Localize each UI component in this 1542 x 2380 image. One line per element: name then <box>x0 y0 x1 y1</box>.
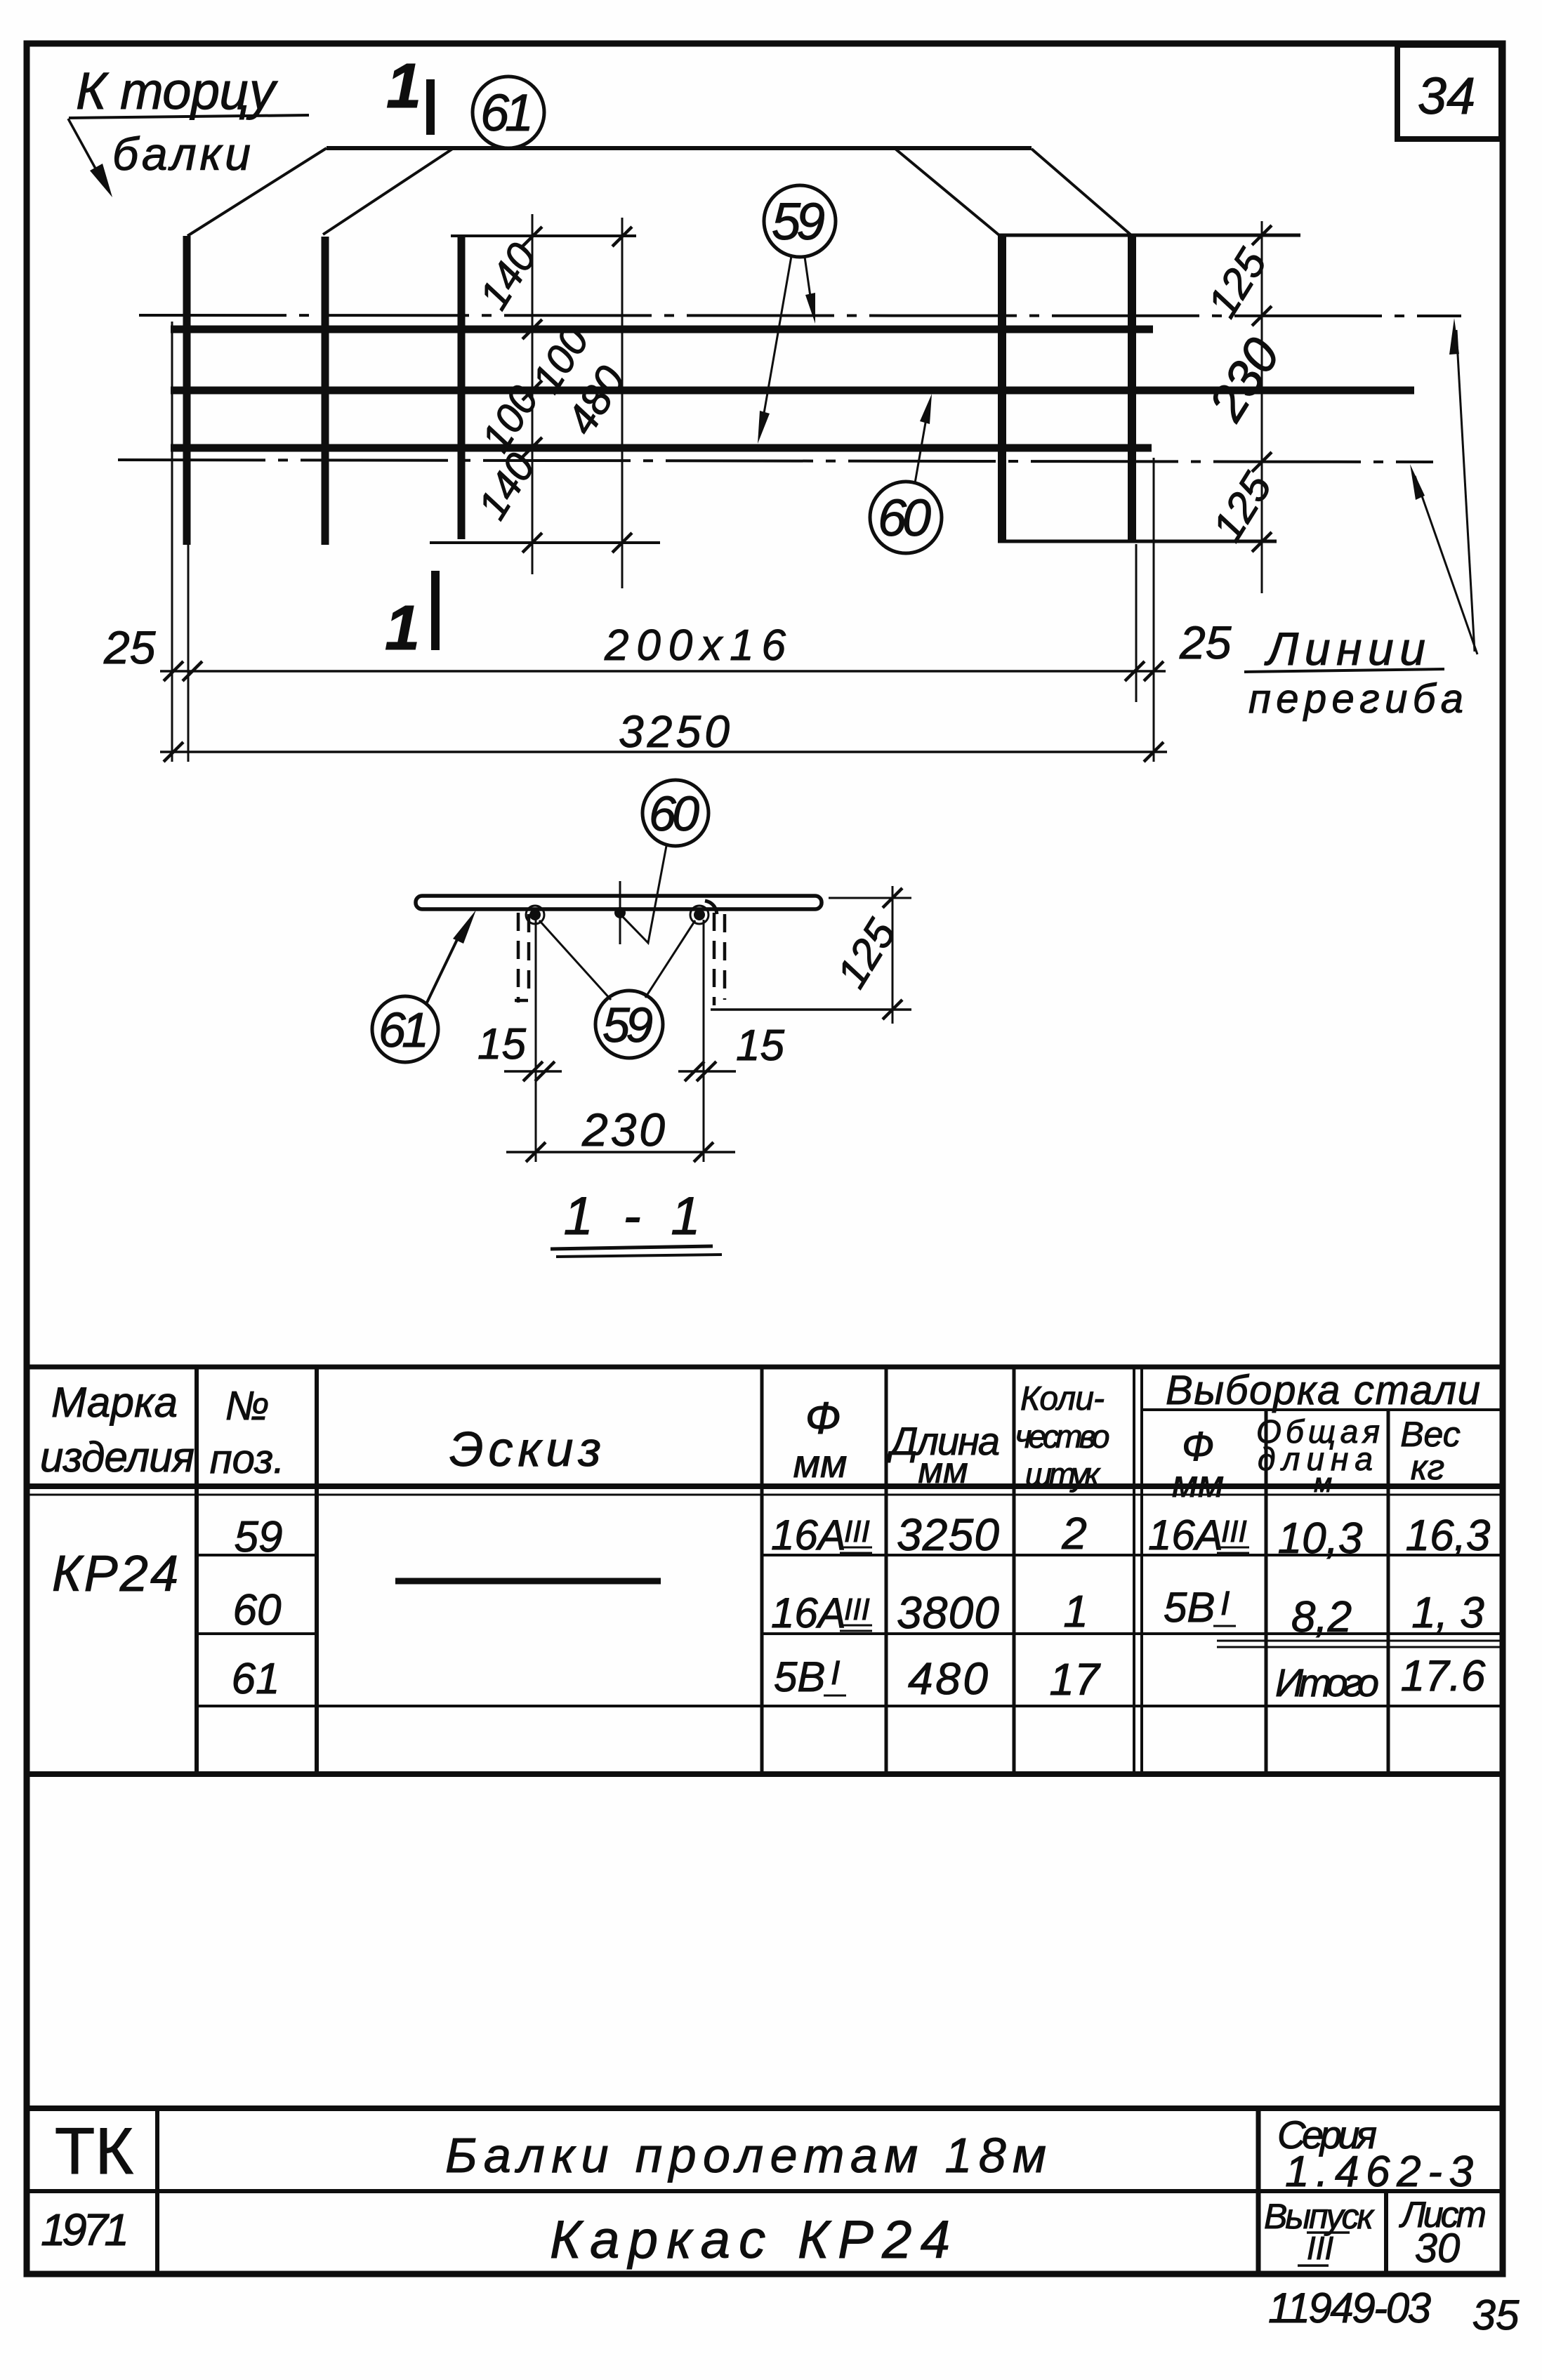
stirrup 61 bar B <box>322 237 329 545</box>
svg-text:Итого: Итого <box>1275 1660 1379 1705</box>
flap bottom edge right <box>998 540 1277 543</box>
svg-text:Марка: Марка <box>51 1379 178 1426</box>
fold outline right inner slant <box>895 149 999 235</box>
dim 125 extension bottom <box>711 1008 911 1011</box>
svg-text:чество: чество <box>1015 1418 1110 1455</box>
svg-text:III: III <box>844 1514 870 1549</box>
dim line 15 right <box>678 1070 736 1073</box>
svg-text:I: I <box>831 1655 840 1692</box>
stirrup C bottom edge <box>430 541 660 544</box>
leader 59 to top bar <box>805 257 812 306</box>
svg-text:59: 59 <box>772 192 825 251</box>
leaders 59 to dots <box>539 920 611 1000</box>
svg-text:17: 17 <box>1049 1654 1101 1705</box>
svg-text:К торцу: К торцу <box>76 62 278 120</box>
stirrup 61 bar A <box>183 236 191 545</box>
bar 60 section middle <box>614 907 626 918</box>
svg-text:мм: мм <box>1172 1463 1224 1505</box>
dim line 230 <box>506 1151 735 1153</box>
callout circle 60 (section) <box>642 780 709 846</box>
svg-text:мм: мм <box>918 1450 968 1491</box>
dimension line 3250 <box>160 751 1167 753</box>
svg-text:Ф: Ф <box>805 1393 841 1443</box>
leader to fold line 2 <box>1415 476 1477 654</box>
fold line 2 (dash-dot) <box>118 460 1433 462</box>
title block grid <box>27 2108 1503 2274</box>
svg-text:30: 30 <box>1415 2226 1461 2271</box>
extension lines bottom dims <box>172 322 1154 762</box>
svg-text:балки: балки <box>112 128 251 180</box>
left leg (hidden, dashed) <box>515 913 529 1003</box>
dim line 125 (section) <box>892 886 894 1024</box>
svg-text:III: III <box>1307 2230 1334 2266</box>
svg-text:Каркас КР24: Каркас КР24 <box>550 2210 950 2270</box>
svg-text:60: 60 <box>233 1586 282 1634</box>
fold outline right outer slant <box>1032 149 1131 234</box>
svg-text:5В: 5В <box>774 1653 825 1700</box>
callout circle 59 (section) <box>595 991 663 1058</box>
bar 59 bottom <box>171 444 1152 452</box>
svg-text:60: 60 <box>878 489 931 547</box>
svg-text:16А: 16А <box>1148 1512 1223 1559</box>
flap top edge right <box>998 234 1300 237</box>
svg-text:ТК: ТК <box>55 2114 133 2188</box>
svg-text:КР24: КР24 <box>52 1546 178 1602</box>
svg-text:1, 3: 1, 3 <box>1411 1589 1484 1637</box>
svg-text:1971: 1971 <box>41 2204 129 2255</box>
svg-text:15: 15 <box>477 1020 526 1069</box>
svg-text:35: 35 <box>1472 2292 1520 2339</box>
svg-text:3800: 3800 <box>897 1587 999 1638</box>
svg-text:60: 60 <box>649 786 699 841</box>
svg-text:11949-03: 11949-03 <box>1268 2285 1431 2332</box>
dimension line 140/100/100/140 <box>532 214 622 588</box>
svg-text:мм: мм <box>793 1441 848 1486</box>
svg-text:61: 61 <box>480 84 534 142</box>
sheet number box <box>1397 45 1501 139</box>
svg-text:3250: 3250 <box>897 1509 999 1560</box>
extension lines 15/230 <box>536 913 704 1162</box>
callout circle 61 (plan) <box>473 77 544 148</box>
right leg (hidden, dashed) <box>714 913 725 1005</box>
svg-text:25: 25 <box>1179 616 1232 668</box>
svg-text:25: 25 <box>103 621 156 673</box>
svg-text:кг: кг <box>1411 1448 1444 1487</box>
svg-text:15: 15 <box>736 1022 784 1070</box>
svg-text:480: 480 <box>908 1653 988 1704</box>
specification table grid <box>27 1367 1503 1774</box>
svg-text:м: м <box>1314 1469 1332 1498</box>
leader to fold line 1 <box>1456 330 1475 652</box>
svg-text:I: I <box>1220 1585 1230 1622</box>
right dimension line 125/230/125 <box>1261 221 1263 593</box>
right bend solid <box>705 901 717 914</box>
sketch bar pos 60 <box>395 1578 661 1585</box>
ticks bottom dims <box>164 661 1164 762</box>
bar 59 section left <box>529 909 541 920</box>
svg-text:№: № <box>225 1383 270 1429</box>
fold outline left inner slant <box>323 148 454 234</box>
dimension line 25 / 200x16 / 25 <box>160 670 1166 673</box>
dimension ticks <box>522 227 632 553</box>
svg-text:Выборка стали: Выборка стали <box>1166 1368 1480 1413</box>
section 1-1 plate <box>416 896 822 909</box>
dim line 15 left <box>504 1070 562 1073</box>
fold line 1 (dash-dot) <box>139 315 1461 316</box>
svg-text:59: 59 <box>602 998 653 1052</box>
svg-text:Коли-: Коли- <box>1020 1380 1105 1417</box>
stirrup 61 bar D <box>998 236 1006 541</box>
callout circle 59 (plan) <box>764 185 836 257</box>
stirrup C top edge <box>451 234 636 237</box>
callout circle 60 (plan) <box>870 482 942 553</box>
callout circle 61 (section) <box>372 996 438 1062</box>
svg-text:34: 34 <box>1418 67 1475 125</box>
leader 60 to middle dot <box>622 846 666 943</box>
svg-text:Линии: Линии <box>1264 623 1425 675</box>
svg-text:61: 61 <box>232 1655 280 1703</box>
bar 60 middle <box>171 387 1414 395</box>
svg-text:17.6: 17.6 <box>1401 1652 1486 1700</box>
dim 125 extension top <box>829 897 911 899</box>
svg-text:5В: 5В <box>1164 1584 1215 1631</box>
svg-text:изделия: изделия <box>40 1434 195 1481</box>
fold outline left outer slant <box>187 148 327 236</box>
leader 59 to bottom bar <box>763 256 791 421</box>
svg-text:Балки пролетам 18м: Балки пролетам 18м <box>445 2128 1046 2183</box>
svg-text:1: 1 <box>385 593 420 663</box>
svg-text:16,3: 16,3 <box>1406 1512 1491 1560</box>
svg-text:16А: 16А <box>771 1512 846 1559</box>
plate development top edge <box>327 146 1032 150</box>
stirrup 61 bar C middle <box>458 235 466 539</box>
svg-text:1: 1 <box>386 51 421 121</box>
leader 61 arrow to plate <box>427 934 460 1003</box>
svg-text:10,3: 10,3 <box>1278 1514 1363 1563</box>
bar 59 section right <box>694 909 705 920</box>
svg-text:штук: штук <box>1025 1456 1101 1493</box>
svg-text:III: III <box>844 1592 870 1627</box>
stirrup 61 bar E <box>1128 236 1136 541</box>
svg-text:Эскиз: Эскиз <box>449 1422 601 1476</box>
svg-text:16А: 16А <box>771 1589 846 1637</box>
svg-text:поз.: поз. <box>210 1436 285 1482</box>
svg-text:8,2: 8,2 <box>1291 1593 1352 1641</box>
bar 59 top <box>171 326 1153 333</box>
svg-text:1 - 1: 1 - 1 <box>564 1186 701 1246</box>
svg-text:230: 230 <box>581 1104 665 1156</box>
svg-text:2: 2 <box>1061 1508 1087 1559</box>
leader 60 to middle bar <box>915 411 928 483</box>
svg-text:III: III <box>1221 1514 1247 1549</box>
note arrow to beam end <box>68 119 95 168</box>
note underline <box>69 115 309 118</box>
svg-text:61: 61 <box>378 1003 429 1057</box>
svg-text:59: 59 <box>235 1513 283 1561</box>
svg-text:1: 1 <box>1063 1586 1088 1637</box>
